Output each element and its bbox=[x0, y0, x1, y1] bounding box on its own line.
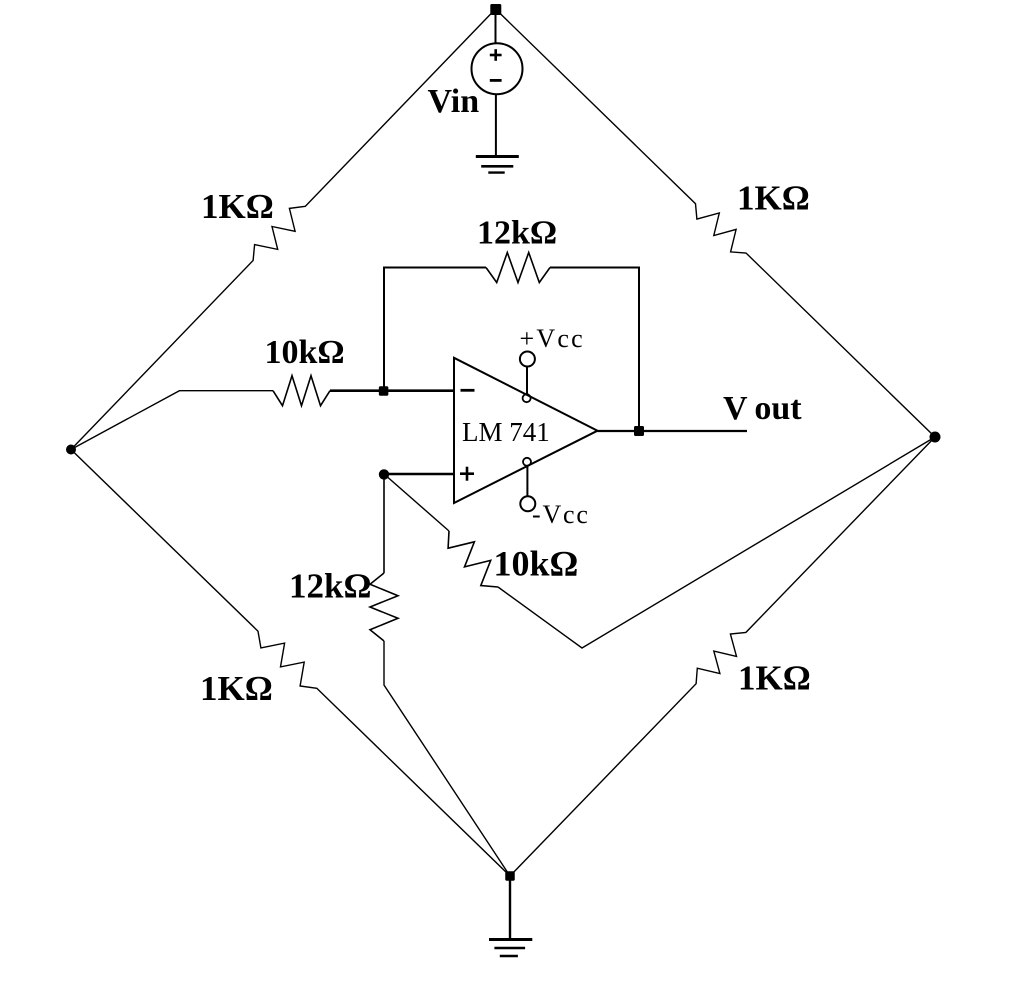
svg-text:10kΩ: 10kΩ bbox=[494, 544, 579, 584]
svg-text:1KΩ: 1KΩ bbox=[200, 669, 273, 708]
svg-text:LM 741: LM 741 bbox=[462, 417, 550, 447]
svg-text:10kΩ: 10kΩ bbox=[265, 334, 345, 371]
svg-text:1KΩ: 1KΩ bbox=[737, 179, 810, 218]
svg-text:-Vcc: -Vcc bbox=[532, 500, 590, 529]
svg-text:+Vcc: +Vcc bbox=[520, 324, 585, 353]
svg-text:12kΩ: 12kΩ bbox=[477, 215, 557, 252]
svg-text:12kΩ: 12kΩ bbox=[289, 567, 372, 606]
svg-text:Vin: Vin bbox=[428, 83, 480, 120]
svg-text:V out: V out bbox=[723, 390, 802, 427]
svg-text:1KΩ: 1KΩ bbox=[738, 659, 811, 698]
svg-text:1KΩ: 1KΩ bbox=[201, 187, 274, 226]
